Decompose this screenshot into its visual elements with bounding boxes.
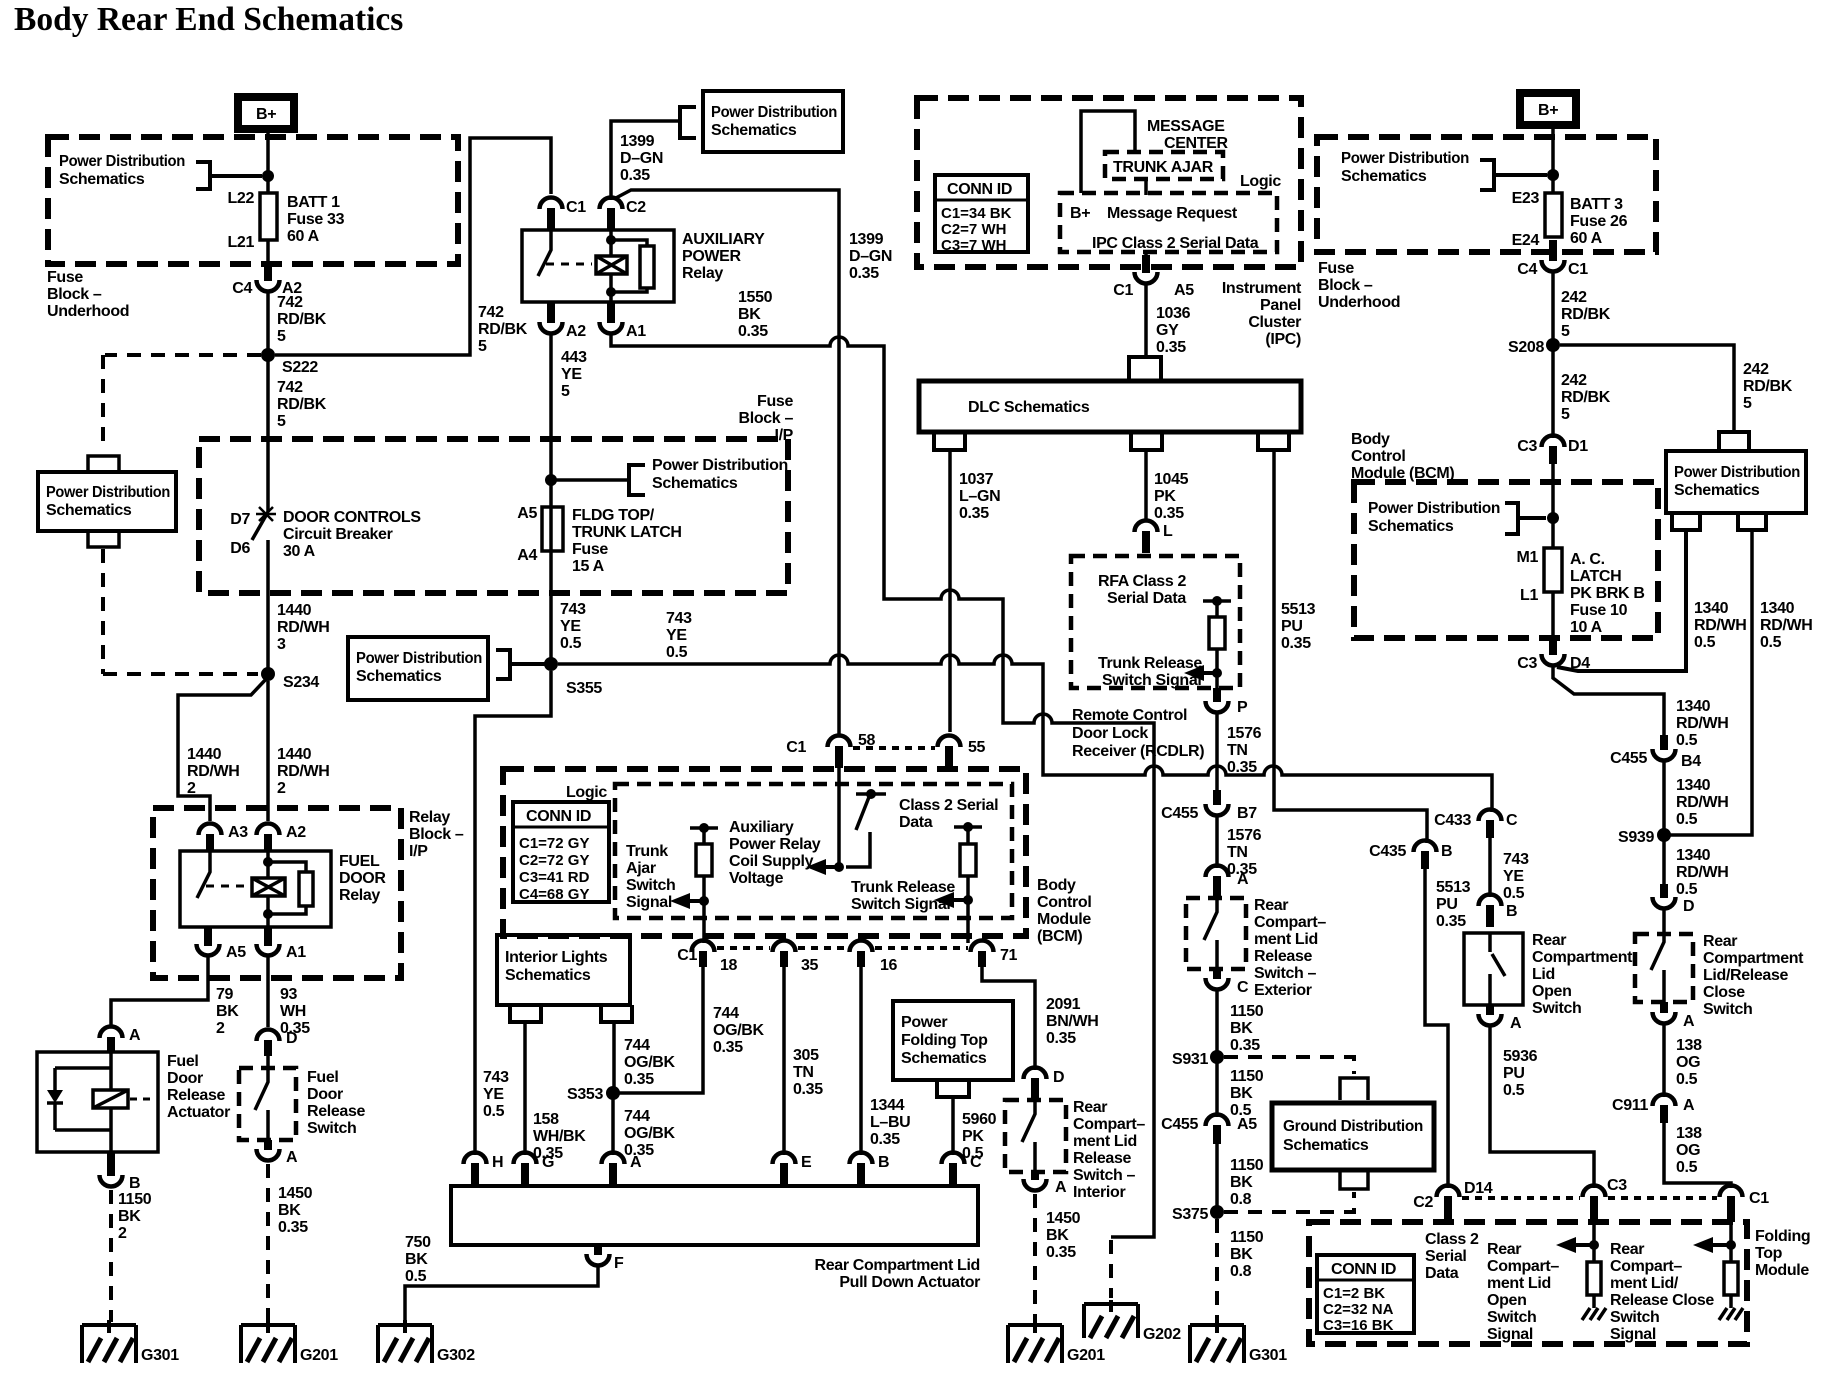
svg-text:Switch –: Switch – [1254,965,1317,982]
wire B+ down to fuse [266,133,270,193]
svg-text:A5: A5 [1237,1116,1257,1133]
connector A3 [199,824,249,852]
svg-text:743: 743 [1503,851,1529,868]
wire label 742 RD/BK 5 [277,294,327,345]
aux relay internal wires [611,230,647,302]
wire label 158 WH/BK 0.35 [533,1111,586,1162]
wire A5 to fuel door release actuator A [111,956,208,1026]
svg-text:Trunk: Trunk [626,843,668,860]
aux power relay connector C1 [540,198,587,230]
wire label 305 TN 0.35 [793,1047,823,1098]
svg-text:Power Distribution: Power Distribution [1674,464,1800,481]
svg-text:B7: B7 [1237,805,1257,822]
svg-text:138: 138 [1676,1037,1702,1054]
label Trunk Release Switch Signal [851,879,955,913]
svg-text:A3: A3 [228,824,248,841]
connector A (close switch) [1653,1002,1696,1030]
dashed wire to G201 center [1033,1194,1037,1322]
label Fuse Block I/P [739,393,794,444]
svg-text:Rear: Rear [1487,1241,1521,1258]
svg-text:S234: S234 [283,674,319,691]
interior lights left foot [510,1005,541,1022]
wire label 1440 RD/WH 2 (left) [187,746,239,797]
svg-text:A5: A5 [517,505,537,522]
svg-text:743: 743 [560,601,586,618]
svg-text:0.35: 0.35 [1230,1037,1260,1054]
RFA class 2 serial data dashed box (RCDLR) [1071,556,1240,688]
svg-text:Control: Control [1351,448,1405,465]
svg-text:1150: 1150 [118,1191,152,1208]
wire P to B7 [1215,711,1219,790]
svg-text:Receiver (RCDLR): Receiver (RCDLR) [1072,743,1204,760]
rear compartment lid release switch interior dashed box [1005,1100,1066,1172]
svg-text:0.5: 0.5 [1503,885,1525,902]
wire left foot to G [523,1022,527,1155]
svg-text:D–GN: D–GN [620,150,663,167]
svg-text:93: 93 [280,986,298,1003]
right foot under right PDS box [1738,513,1766,530]
wire C433 to B [1488,838,1492,897]
svg-text:Folding Top: Folding Top [901,1032,988,1049]
svg-text:C3: C3 [1607,1177,1627,1194]
svg-text:Power Distribution: Power Distribution [46,484,170,501]
connector B (actuator) [100,1152,141,1192]
wire label 5513 PU 0.35 (C435) [1436,879,1471,930]
svg-text:Lid/Release: Lid/Release [1703,967,1789,984]
connector A1 (aux relay) [600,302,647,340]
svg-text:Switch: Switch [1532,1000,1581,1017]
svg-text:DOOR CONTROLS: DOOR CONTROLS [283,509,421,526]
svg-text:5: 5 [1561,406,1570,423]
svg-text:ment Lid: ment Lid [1073,1133,1137,1150]
connector 71 [971,941,1018,968]
wire label 1450 BK 0.35 (interior) [1046,1210,1081,1261]
svg-text:PU: PU [1281,618,1303,635]
svg-text:Switch Signal: Switch Signal [851,896,950,913]
svg-text:Module: Module [1755,1262,1809,1279]
svg-text:0.5: 0.5 [666,644,688,661]
svg-text:Power Distribution: Power Distribution [652,457,788,474]
svg-text:A: A [1510,1015,1522,1032]
connector A1 [257,927,307,961]
svg-text:C1: C1 [1568,261,1588,278]
svg-text:B+: B+ [256,106,276,123]
wire label 443 YE 5 [561,349,587,400]
svg-text:D–GN: D–GN [849,248,892,265]
svg-text:G301: G301 [1249,1347,1287,1364]
node dot at B+ wire [262,170,274,182]
svg-text:S355: S355 [566,680,602,697]
svg-text:C: C [1506,812,1518,829]
connector C435 B [1369,841,1452,869]
svg-text:71: 71 [1000,947,1018,964]
fuse block underhood dashed box (left) [48,137,458,264]
DLC center foot [1131,434,1162,450]
wire label 5513 PU 0.35 [1281,601,1316,652]
svg-text:Schematics: Schematics [1674,482,1760,499]
relay resistor [299,872,313,906]
svg-text:1576: 1576 [1227,827,1262,844]
wire label 1450 BK 0.35 [278,1185,313,1236]
relay internal wires [268,851,306,927]
relay block I/P dashed box (fuse block I/P) [199,439,788,593]
wire B7 to A [1215,815,1219,868]
svg-text:Ajar: Ajar [626,860,656,877]
svg-text:0.35: 0.35 [1436,913,1466,930]
svg-text:138: 138 [1676,1125,1702,1142]
svg-text:DLC Schematics: DLC Schematics [968,399,1090,416]
connector A (open switch) [1479,1005,1523,1032]
svg-text:Switch: Switch [1610,1309,1659,1326]
svg-text:35: 35 [801,957,819,974]
svg-text:RD/WH: RD/WH [277,763,329,780]
svg-text:C911: C911 [1612,1097,1648,1114]
actuator internals: diode + coil [55,1052,111,1152]
svg-text:Rear: Rear [1610,1241,1644,1258]
wire label 2091 BN/WH 0.35 [1046,996,1098,1047]
wire right foot to S939 [1664,530,1752,835]
node S222 [261,348,275,362]
svg-text:Door: Door [167,1070,203,1087]
svg-text:158: 158 [533,1111,559,1128]
svg-text:Power Relay: Power Relay [729,836,821,853]
svg-text:Schematics: Schematics [652,475,738,492]
svg-text:Fuel: Fuel [167,1053,199,1070]
svg-text:D14: D14 [1464,1180,1493,1197]
connector C2 D14 [1413,1180,1493,1222]
node dot [1547,169,1559,181]
svg-text:Release: Release [167,1087,225,1104]
svg-text:Release: Release [1254,948,1312,965]
svg-text:L22: L22 [227,190,254,207]
svg-text:1440: 1440 [277,602,312,619]
svg-text:Underhood: Underhood [1318,294,1400,311]
svg-text:Body: Body [1351,431,1390,448]
svg-text:Logic: Logic [1240,173,1281,190]
RCDLR trunk release resistor [1203,601,1231,700]
switch blade [255,1056,268,1140]
svg-text:TN: TN [1227,742,1248,759]
svg-text:C2: C2 [1413,1194,1433,1211]
svg-text:0.5: 0.5 [1694,634,1716,651]
bracket foot below PDS box [88,531,119,547]
svg-text:Instrument: Instrument [1222,280,1302,297]
svg-text:Underhood: Underhood [47,303,129,320]
svg-text:S353: S353 [567,1086,603,1103]
svg-text:B+: B+ [1538,102,1558,119]
power distribution schematics box (far left) [38,472,176,531]
svg-text:742: 742 [277,379,303,396]
svg-text:Circuit Breaker: Circuit Breaker [283,526,393,543]
svg-text:C3: C3 [1517,655,1537,672]
power distribution schematics box (mid left of S355) [348,637,488,700]
svg-text:LATCH: LATCH [1570,568,1621,585]
svg-text:PK: PK [962,1128,984,1145]
FTM C3 branch: arrow + resistor + ground [1592,1222,1596,1262]
svg-text:55: 55 [968,739,986,756]
dashed links between bottom connectors [717,946,968,950]
rear compartment lid release switch exterior dashed box [1186,898,1246,969]
dotted links C2-C3-C1 [1462,1196,1717,1200]
svg-text:G201: G201 [300,1347,338,1364]
BCM dashed box (right) [1354,482,1658,638]
dashed S375 to ground distribution foot [1224,1192,1354,1212]
aux relay switch [538,230,551,276]
dashed wire S375 to G301 [1215,1219,1219,1322]
svg-text:Switch: Switch [307,1120,356,1137]
node dot [1547,512,1559,524]
interior switch blade [1022,1099,1035,1172]
wire label 750 BK 0.5 [405,1234,431,1285]
wire label 1440 RD/WH 3 [277,602,329,653]
power distribution schematics box (right) [1666,451,1806,513]
svg-text:DOOR: DOOR [339,870,386,887]
svg-text:Signal: Signal [626,894,672,911]
svg-text:YE: YE [561,366,582,383]
svg-text:G302: G302 [437,1347,475,1364]
connector C1 (FTM) [1720,1186,1770,1223]
wire label 138 OG 0.5 (below C911) [1676,1125,1702,1176]
svg-text:C1=2 BK: C1=2 BK [1323,1285,1385,1302]
ground G202 [1084,1300,1181,1343]
svg-text:Power Distribution: Power Distribution [59,153,185,170]
svg-text:C2=7 WH: C2=7 WH [941,221,1006,238]
wire label 742 RD/BK 5 (C1 feed) [478,304,528,355]
connector A (exterior switch) [1206,866,1250,899]
B+ terminal (right) [1520,93,1576,125]
wire label 1576 TN 0.35 [1227,725,1262,776]
svg-text:TRUNK LATCH: TRUNK LATCH [572,524,682,541]
connector C911 A [1612,1095,1695,1124]
wire label 743 YE 0.5 (second) [666,610,692,661]
fuel door release actuator box [37,1052,230,1152]
svg-text:Power Distribution: Power Distribution [1368,500,1500,517]
svg-text:BK: BK [216,1003,239,1020]
wire D4 down-branch to C455 B4 [1553,666,1664,735]
wire 1045 PK DLC to L [1144,450,1148,522]
svg-text:0.35: 0.35 [959,505,989,522]
svg-text:Voltage: Voltage [729,870,784,887]
svg-text:10 A: 10 A [1570,619,1603,636]
svg-text:1340: 1340 [1676,847,1711,864]
svg-text:Serial Data: Serial Data [1107,590,1186,607]
aux power relay connector C2 [600,198,647,230]
svg-text:C1: C1 [786,739,806,756]
ground distribution schematics box [1272,1103,1434,1170]
bracket foot above PDS box [88,456,119,472]
svg-text:BK: BK [405,1251,428,1268]
svg-text:BN/WH: BN/WH [1046,1013,1098,1030]
svg-text:0.35: 0.35 [1281,635,1311,652]
svg-text:Body Rear End Schematics: Body Rear End Schematics [14,1,403,38]
interior lights right foot [601,1005,632,1022]
svg-text:RD/BK: RD/BK [277,311,327,328]
svg-text:C4=68 GY: C4=68 GY [519,886,589,903]
svg-text:5: 5 [1561,323,1570,340]
fuse FLDG TOP/TRUNK LATCH [517,505,681,575]
BCM outer dashed box [503,769,1026,936]
DLC right foot [1258,434,1289,450]
fuse BATT 1 Fuse 33 60A [227,190,344,251]
svg-text:Switch: Switch [1487,1309,1536,1326]
connector P [1206,688,1249,716]
svg-text:Fuse: Fuse [572,541,608,558]
svg-text:B: B [1441,843,1452,860]
svg-text:0.35: 0.35 [620,167,650,184]
BCM inner logic dashed box [615,784,1012,918]
label Power Distribution Schematics (I/P box) [652,457,788,492]
svg-text:B: B [1506,903,1517,920]
svg-text:A5: A5 [226,944,246,961]
svg-text:C2: C2 [626,199,646,216]
svg-text:0.5: 0.5 [405,1268,427,1285]
svg-text:AUXILIARY: AUXILIARY [682,231,765,248]
connector G [514,1153,555,1187]
svg-text:Compart–: Compart– [1073,1116,1145,1133]
wire A2 down through FLDG fuse to S355 [549,334,553,659]
wire label 1036 GY 0.35 [1156,305,1191,356]
bracket to fuse wire [1505,503,1546,534]
svg-text:PU: PU [1503,1065,1525,1082]
wire label 5960 PK 0.5 [962,1111,997,1162]
label Trunk Ajar Switch Signal [626,843,675,911]
svg-text:0.5: 0.5 [483,1103,505,1120]
svg-text:G301: G301 [141,1347,179,1364]
svg-text:0.5: 0.5 [1676,811,1698,828]
svg-text:0.35: 0.35 [624,1071,654,1088]
svg-text:0.35: 0.35 [738,323,768,340]
circuit breaker DOOR CONTROLS 30A [230,507,421,560]
connector A (fuel door release switch) [257,1140,299,1166]
bracket to B+ wire [196,162,262,189]
svg-text:5: 5 [478,338,487,355]
DLC schematics box [919,381,1301,432]
svg-text:Compartment: Compartment [1532,949,1633,966]
svg-text:2: 2 [118,1225,127,1242]
svg-text:Block –: Block – [47,286,102,303]
svg-text:743: 743 [666,610,692,627]
wire S208 right to PDS box [1560,345,1734,432]
wire label 1440 RD/WH 2 (right) [277,746,329,797]
svg-text:RD/WH: RD/WH [1694,617,1746,634]
svg-text:Fuse 26: Fuse 26 [1570,213,1628,230]
dashed link between 58 and 55 [853,746,935,750]
svg-text:D: D [1683,898,1694,915]
svg-text:OG: OG [1676,1142,1700,1159]
class 2 serial data switch [846,794,886,867]
connector 16 [850,941,898,975]
svg-text:RD/WH: RD/WH [277,619,329,636]
aux relay coil (crossed box) [596,256,627,274]
wire label 744 OG/BK 0.35 [713,1005,764,1056]
wire label 79 BK 2 [216,986,239,1037]
svg-text:RD/BK: RD/BK [1561,389,1611,406]
svg-text:0.35: 0.35 [1046,1030,1076,1047]
svg-text:CENTER: CENTER [1164,135,1228,152]
wire B+ down [1551,129,1555,193]
svg-text:OG: OG [1676,1054,1700,1071]
wire label 1340 RD/WH 0.5 (to B4) [1676,698,1728,749]
relay block I/P dashed box [153,808,401,978]
svg-text:0.5: 0.5 [560,635,582,652]
svg-text:Data: Data [1425,1265,1459,1282]
svg-text:A: A [1683,1013,1695,1030]
svg-text:Interior Lights: Interior Lights [505,949,608,966]
svg-text:B: B [878,1154,889,1171]
svg-text:Compartment: Compartment [1703,950,1804,967]
svg-text:0.35: 0.35 [870,1131,900,1148]
wire fuse to D4 [1551,592,1555,641]
svg-text:0.35: 0.35 [713,1039,743,1056]
svg-text:G201: G201 [1067,1347,1105,1364]
svg-text:Rear Compartment Lid: Rear Compartment Lid [815,1257,980,1274]
svg-text:WH: WH [280,1003,306,1020]
wire label 1550 BK 0.35 [738,289,773,340]
svg-text:YE: YE [483,1086,504,1103]
svg-text:L1: L1 [1520,587,1538,604]
svg-text:Relay: Relay [339,887,380,904]
svg-text:0.8: 0.8 [1230,1191,1252,1208]
svg-text:OG/BK: OG/BK [624,1125,675,1142]
connector B (actuator row) [850,1153,890,1187]
svg-text:242: 242 [1561,289,1587,306]
svg-text:D: D [286,1030,297,1047]
label Auxiliary Power Relay Coil Supply Voltage [729,819,821,887]
wire label 1150 BK 2 [118,1191,152,1242]
wire 35 to E [782,953,786,1155]
relay coil (crossed box) [252,878,285,896]
svg-text:RD/WH: RD/WH [1676,794,1728,811]
wire connector to S222 [266,290,270,512]
wire label 1399 D-GN 0.35 [620,133,663,184]
interior lights schematics box [497,935,630,1005]
svg-text:0.35: 0.35 [1227,759,1257,776]
svg-text:742: 742 [277,294,303,311]
aux relay dashed link [546,263,592,266]
svg-text:443: 443 [561,349,587,366]
wire label 242 RD/BK 5 [1561,289,1611,340]
wire S222 to aux relay C1 [275,138,551,355]
svg-text:F: F [614,1255,624,1272]
svg-text:Release: Release [1073,1150,1131,1167]
svg-text:Panel: Panel [1260,297,1301,314]
svg-text:15 A: 15 A [572,558,605,575]
label Rear Compartment Lid Open Switch Signal [1487,1241,1559,1343]
connector D (close switch) [1653,841,1695,915]
connector E [773,1153,813,1187]
node S353 [606,1086,620,1100]
wire D1 to fuse [1551,462,1555,548]
connector D (fuel door release switch) [257,1030,298,1057]
svg-text:Data: Data [899,814,933,831]
svg-text:C1: C1 [1113,282,1133,299]
svg-text:1440: 1440 [277,746,312,763]
svg-text:C455: C455 [1161,805,1198,822]
svg-text:MESSAGE: MESSAGE [1147,118,1225,135]
svg-text:Release Close: Release Close [1610,1292,1714,1309]
svg-text:2091: 2091 [1046,996,1081,1013]
svg-text:0.35: 0.35 [1156,339,1186,356]
label Class 2 Serial Data (FTM) [1425,1231,1479,1282]
svg-text:Door: Door [307,1086,343,1103]
svg-text:RD/BK: RD/BK [1743,378,1793,395]
connector 58 (BCM C1) [786,732,875,768]
message center dashed box [917,98,1301,267]
svg-text:Compart–: Compart– [1610,1258,1682,1275]
connector A (actuator) [100,1027,142,1053]
svg-text:OG/BK: OG/BK [624,1054,675,1071]
trunk ajar switch resistor [690,828,718,943]
